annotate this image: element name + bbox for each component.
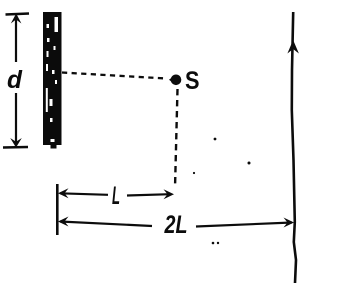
dashed line from plate to S (62, 73, 166, 79)
screen line (vertical) (287, 12, 299, 283)
source point S (dot) (171, 75, 182, 86)
stray speck (248, 162, 251, 165)
svg-text:d: d (7, 66, 23, 94)
dimension arrow L (57, 184, 174, 235)
slit plate (filled bar) (43, 12, 62, 149)
stray speck (212, 242, 215, 245)
stray speck (214, 138, 217, 141)
svg-text:2L: 2L (164, 211, 188, 239)
stray speck (217, 242, 219, 244)
svg-text:S: S (185, 67, 200, 95)
svg-text:L: L (112, 182, 120, 210)
dimension arrow d (vertical double arrow) (3, 14, 29, 148)
dashed line S down to L arrow (175, 89, 178, 188)
stray speck (193, 172, 195, 174)
dimension arrow 2L (58, 217, 294, 228)
